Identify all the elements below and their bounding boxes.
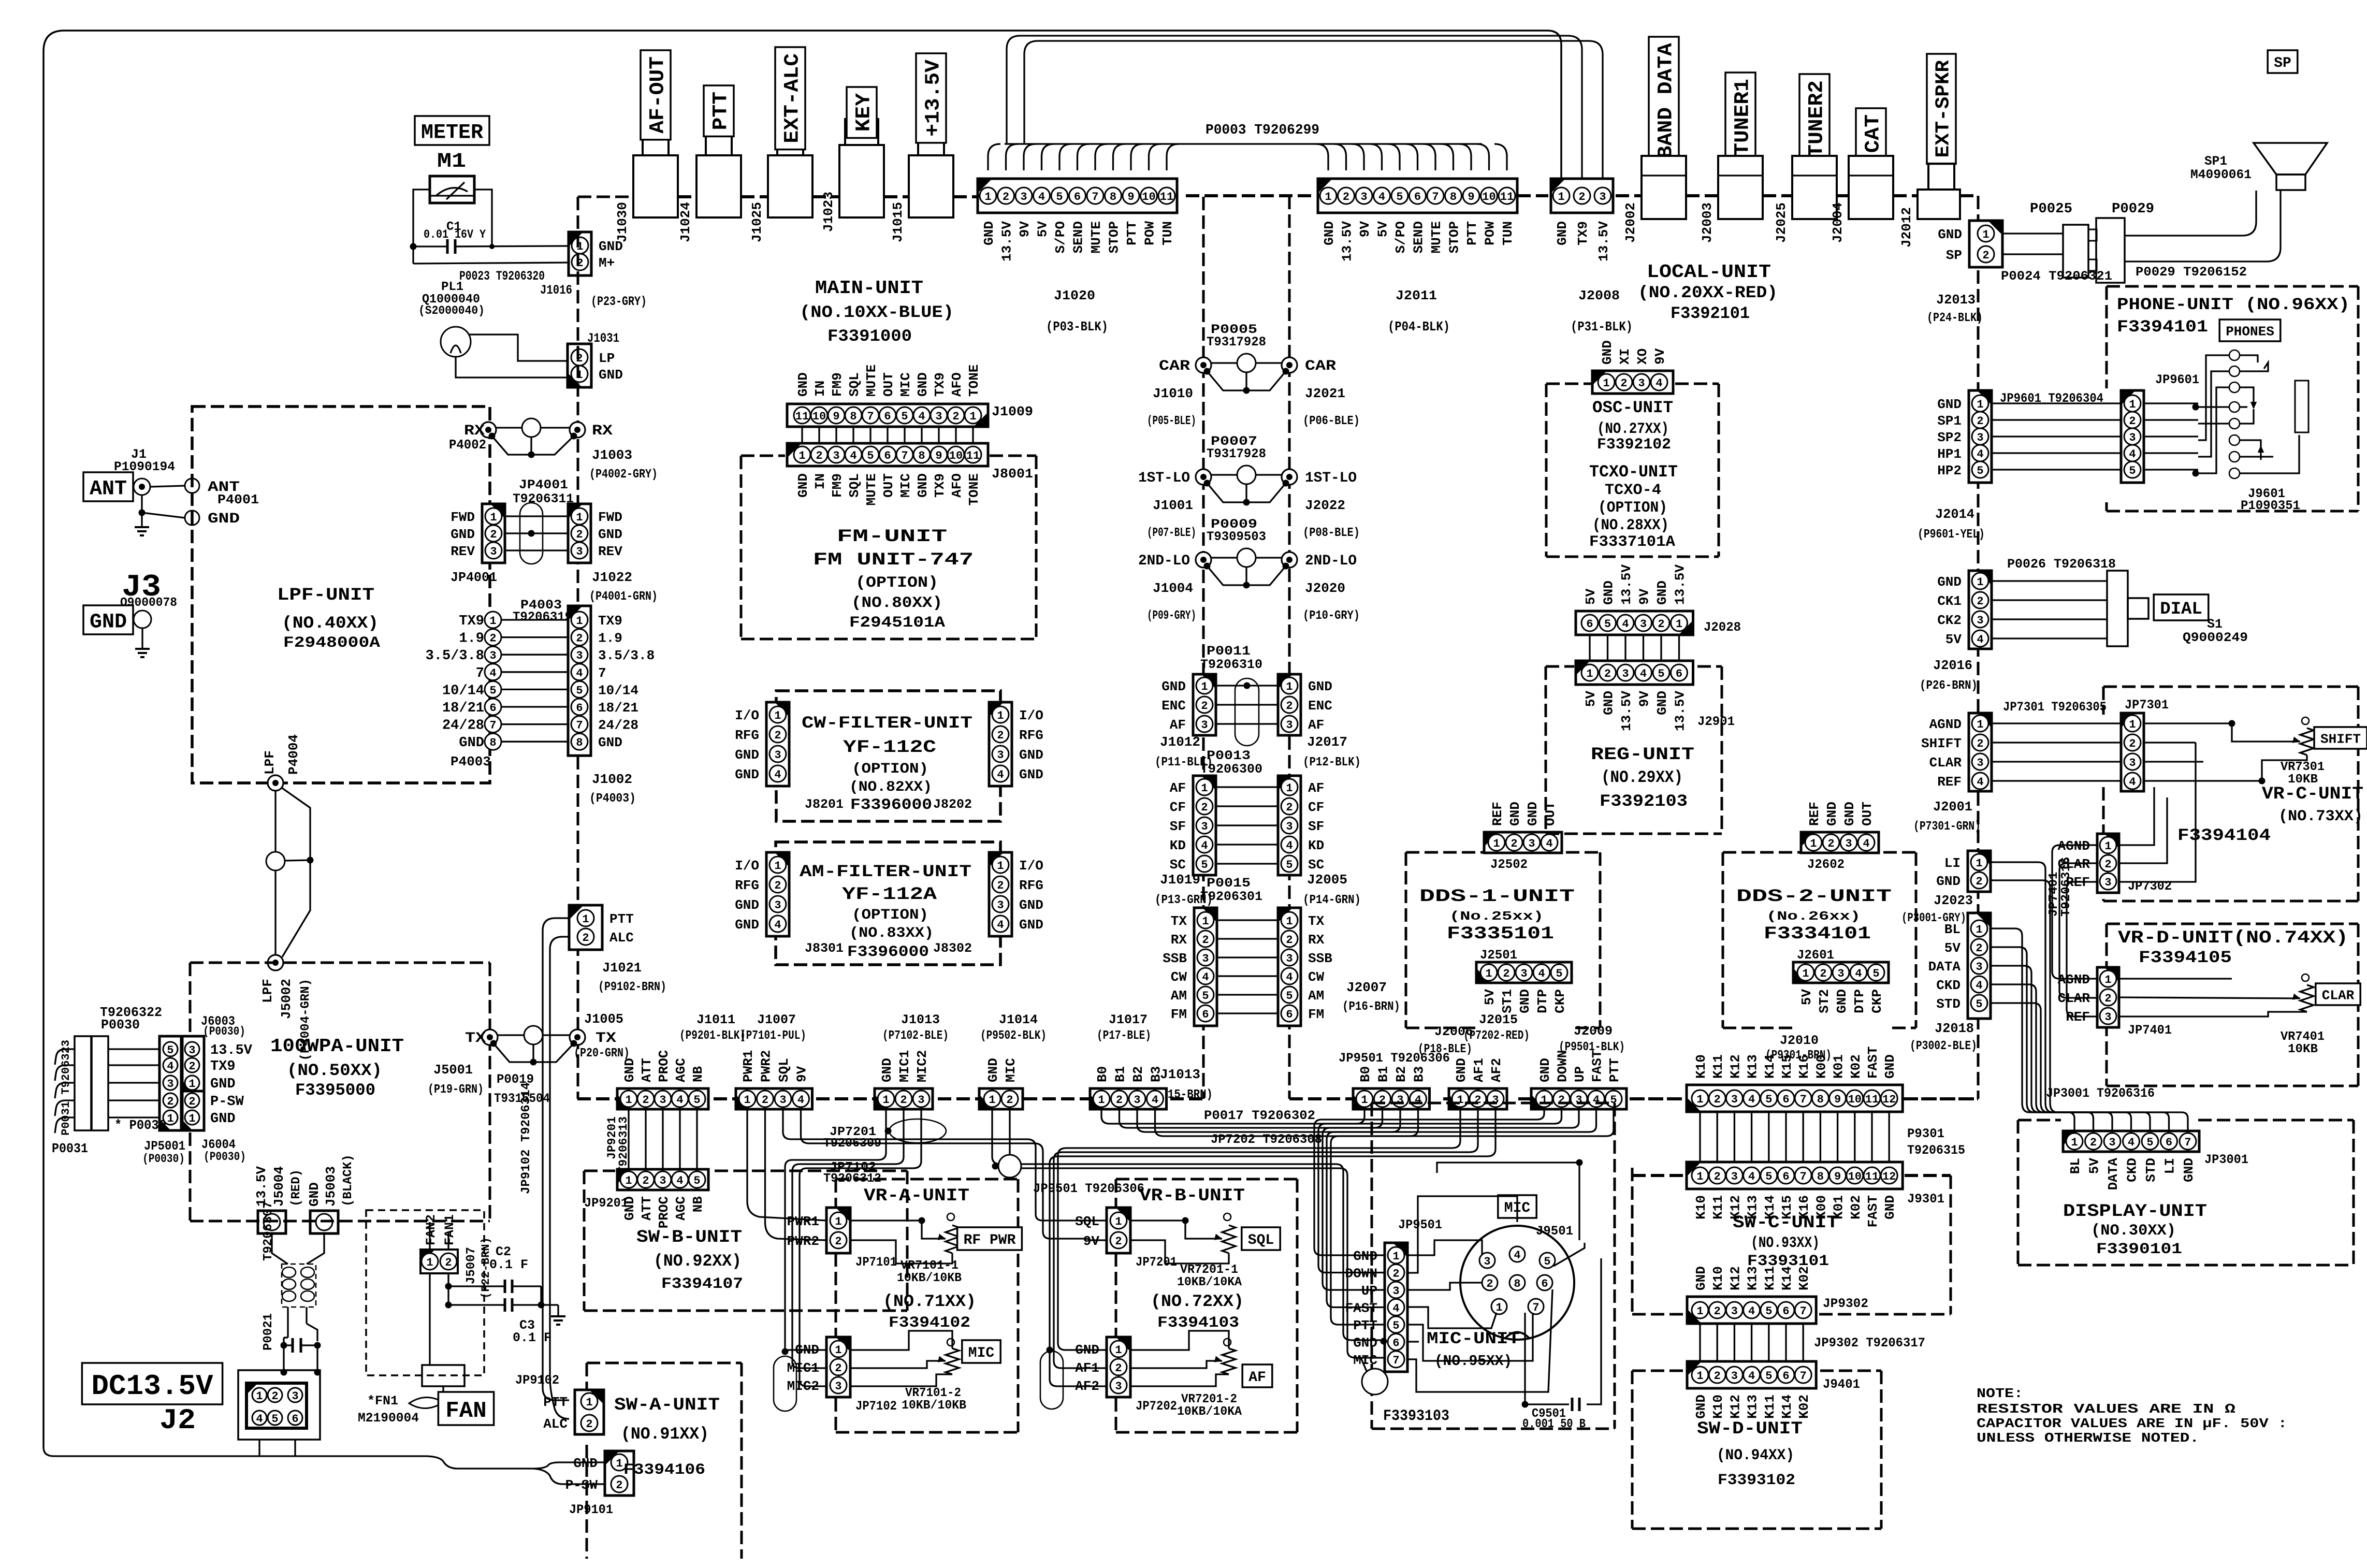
wire top line 3 (to J2008 pin3) — [1024, 41, 1603, 179]
svg-text:(P24-BLK): (P24-BLK) — [1927, 311, 1983, 325]
svg-text:GND: GND — [1601, 691, 1617, 715]
connector J2023 — [1968, 851, 1991, 892]
wire lamp to J1031 pin1 (GND) — [456, 357, 568, 378]
svg-text:J9401: J9401 — [1823, 1377, 1860, 1392]
svg-text:VR7201-2: VR7201-2 — [1181, 1392, 1237, 1406]
svg-text:5V: 5V — [1035, 221, 1051, 238]
svg-text:T9309503: T9309503 — [1207, 529, 1266, 544]
svg-text:F3394104: F3394104 — [2177, 826, 2271, 845]
connector JP9101 — [605, 1451, 634, 1496]
svg-text:100WPA-UNIT: 100WPA-UNIT — [270, 1036, 404, 1057]
svg-text:4: 4 — [676, 1174, 683, 1187]
jack J1024 body — [706, 135, 732, 155]
svg-text:P9301: P9301 — [1907, 1126, 1944, 1141]
svg-text:3: 3 — [576, 649, 583, 662]
pot VR7401 (CLAR) — [2302, 974, 2309, 981]
svg-text:CAPACITOR VALUES ARE IN µF. 50: CAPACITOR VALUES ARE IN µF. 50V : — [1977, 1416, 2287, 1431]
connector JP7401 — [2097, 967, 2119, 1027]
svg-text:S/PO: S/PO — [1393, 221, 1408, 253]
svg-text:DISPLAY-UNIT: DISPLAY-UNIT — [2063, 1202, 2207, 1222]
svg-text:FAST: FAST — [1345, 1301, 1377, 1316]
svg-text:AM: AM — [1308, 988, 1324, 1004]
svg-text:J2601: J2601 — [1797, 948, 1834, 963]
svg-text:TUN: TUN — [1500, 221, 1516, 245]
svg-text:ATT: ATT — [639, 1196, 655, 1221]
svg-text:TX9: TX9 — [932, 372, 948, 397]
wire top line 2 (to J2008 pin2) — [1007, 36, 1582, 179]
svg-text:7: 7 — [576, 719, 583, 732]
boxed label EXT-ALC — [775, 47, 805, 150]
svg-text:9V: 9V — [794, 1066, 810, 1082]
svg-text:5: 5 — [2129, 464, 2136, 477]
svg-text:DTP: DTP — [1535, 989, 1550, 1013]
wire J5003 down — [307, 1233, 324, 1264]
connector J1021 — [569, 905, 602, 950]
wire dashed J2008-right — [1616, 194, 1640, 197]
pot VR7301 (SHIFT) — [2302, 717, 2309, 724]
svg-text:11: 11 — [1500, 191, 1514, 204]
boxed label METER — [415, 116, 489, 145]
svg-text:LP: LP — [599, 351, 615, 366]
svg-text:3: 3 — [1286, 719, 1293, 732]
svg-text:GND: GND — [210, 1077, 236, 1092]
svg-text:GND: GND — [915, 473, 931, 498]
phone jack sleeve rect — [2295, 381, 2308, 432]
svg-text:2: 2 — [1714, 1305, 1721, 1318]
svg-text:POW: POW — [1483, 221, 1498, 245]
svg-text:3: 3 — [1977, 614, 1983, 627]
svg-text:4: 4 — [1863, 837, 1869, 850]
svg-text:(P12-BLK): (P12-BLK) — [1303, 756, 1361, 770]
svg-text:J8202: J8202 — [933, 797, 972, 812]
connector J8302 — [989, 852, 1012, 936]
wire bottom border to JP9101 — [43, 1447, 533, 1469]
svg-text:SP: SP — [2274, 55, 2291, 71]
svg-text:5: 5 — [1201, 859, 1208, 872]
svg-text:AF: AF — [1308, 780, 1324, 796]
svg-text:6: 6 — [1782, 1370, 1789, 1383]
svg-text:9: 9 — [1127, 191, 1134, 204]
wires J1012-J2017 — [1216, 685, 1278, 686]
wire coax link — [1211, 362, 1237, 364]
svg-text:BL: BL — [1944, 922, 1961, 937]
svg-text:K10: K10 — [1710, 1266, 1726, 1290]
svg-text:P4003: P4003 — [451, 754, 491, 770]
wire dashed local jacks row — [1686, 194, 1718, 197]
svg-text:J2: J2 — [159, 1404, 196, 1437]
svg-text:3: 3 — [1731, 1170, 1738, 1183]
bus JP7102 MIC1/MIC2 — [785, 1109, 886, 1350]
svg-text:2: 2 — [1116, 1094, 1123, 1107]
svg-text:STOP: STOP — [1107, 221, 1122, 253]
svg-text:6: 6 — [1782, 1305, 1789, 1318]
svg-text:6: 6 — [576, 702, 583, 715]
svg-text:10: 10 — [812, 410, 826, 423]
connector JP5001 (left col) — [159, 1036, 181, 1130]
svg-text:2: 2 — [1201, 700, 1208, 713]
svg-text:F3392102: F3392102 — [1597, 436, 1671, 454]
svg-text:F3392103: F3392103 — [1600, 792, 1688, 811]
connector JP9501 — [1385, 1243, 1407, 1372]
SW-B-UNIT box — [583, 1171, 586, 1311]
svg-text:(NO.50XX): (NO.50XX) — [287, 1061, 382, 1080]
svg-text:(P07-BLE): (P07-BLE) — [1147, 526, 1196, 540]
svg-text:2: 2 — [490, 528, 497, 541]
svg-text:P0026 T9206318: P0026 T9206318 — [2007, 557, 2116, 572]
label DC13.5V — [82, 1363, 222, 1404]
svg-text:2: 2 — [1604, 667, 1611, 680]
svg-text:3: 3 — [1392, 1285, 1399, 1298]
svg-text:RESISTOR VALUES ARE IN Ω: RESISTOR VALUES ARE IN Ω — [1977, 1401, 2235, 1417]
svg-text:FM9: FM9 — [830, 473, 845, 498]
svg-text:REV: REV — [451, 544, 475, 559]
svg-text:(NO.94XX): (NO.94XX) — [1717, 1447, 1794, 1464]
svg-text:5: 5 — [1872, 967, 1879, 980]
svg-text:1: 1 — [1558, 191, 1564, 204]
svg-text:(P16-BRN): (P16-BRN) — [1342, 1000, 1400, 1014]
svg-text:CK2: CK2 — [1937, 613, 1962, 628]
svg-text:(P0030): (P0030) — [203, 1025, 245, 1038]
svg-text:T9206309: T9206309 — [823, 1137, 881, 1151]
svg-text:F3337101A: F3337101A — [1589, 533, 1675, 551]
REG-UNIT box — [1545, 666, 1547, 834]
svg-text:RX: RX — [1308, 932, 1325, 948]
cable oval JP7102 — [774, 1356, 796, 1411]
cable oval JP7202 — [1040, 1351, 1063, 1409]
svg-text:5V: 5V — [1482, 989, 1498, 1006]
bus JP9501 (J2009 to MIC) — [1314, 1109, 1544, 1255]
svg-text:P0015: P0015 — [1207, 876, 1251, 891]
svg-text:2: 2 — [2129, 737, 2136, 750]
svg-text:J1022: J1022 — [592, 570, 632, 585]
svg-text:3: 3 — [833, 449, 839, 462]
svg-text:J8201: J8201 — [805, 797, 844, 812]
svg-text:6: 6 — [1586, 618, 1593, 631]
svg-text:(P3002-BLE): (P3002-BLE) — [1910, 1039, 1977, 1053]
svg-text:1ST-LO: 1ST-LO — [1138, 470, 1190, 486]
svg-text:2: 2 — [997, 879, 1004, 892]
svg-text:J2008: J2008 — [1578, 288, 1620, 303]
svg-text:5: 5 — [576, 684, 583, 697]
svg-text:RFG: RFG — [735, 878, 759, 893]
svg-text:AF2: AF2 — [1489, 1058, 1504, 1082]
svg-text:TONE: TONE — [966, 473, 982, 505]
svg-text:3: 3 — [1731, 1370, 1738, 1383]
svg-text:(NO.20XX-RED): (NO.20XX-RED) — [1638, 283, 1778, 302]
svg-text:1: 1 — [582, 913, 589, 926]
svg-text:5: 5 — [1396, 191, 1403, 204]
svg-text:GND: GND — [735, 897, 759, 913]
svg-text:3: 3 — [1286, 820, 1293, 833]
svg-text:2: 2 — [1820, 967, 1826, 980]
connector J2011 — [1318, 179, 1517, 213]
svg-text:J1005: J1005 — [584, 1011, 623, 1027]
svg-text:1: 1 — [835, 1344, 841, 1357]
wire J2011 pin riser — [1387, 144, 1400, 170]
svg-text:10: 10 — [1848, 1170, 1862, 1183]
svg-text:JP7202: JP7202 — [1136, 1399, 1177, 1414]
svg-text:1: 1 — [1115, 1215, 1122, 1228]
svg-text:B3: B3 — [1412, 1066, 1427, 1082]
svg-text:ATT: ATT — [639, 1058, 655, 1082]
svg-text:10: 10 — [1482, 191, 1495, 204]
svg-text:AGND: AGND — [2058, 972, 2090, 988]
wire LPF bow — [282, 788, 310, 957]
svg-text:GND: GND — [1019, 917, 1043, 933]
svg-text:6: 6 — [1286, 1008, 1293, 1021]
svg-text:ENC: ENC — [1161, 698, 1186, 714]
svg-text:(P9502-BLK): (P9502-BLK) — [980, 1029, 1047, 1043]
svg-text:JP9302: JP9302 — [1823, 1296, 1868, 1311]
svg-text:MUTE: MUTE — [1429, 221, 1444, 253]
wire coax link — [1211, 557, 1237, 558]
svg-text:DDS-2-UNIT: DDS-2-UNIT — [1736, 887, 1892, 907]
svg-text:(NO.27XX): (NO.27XX) — [1597, 420, 1669, 438]
svg-text:2: 2 — [1286, 700, 1293, 713]
svg-text:1: 1 — [1325, 191, 1331, 204]
svg-text:K10: K10 — [1693, 1195, 1709, 1219]
capacitor C1 — [446, 239, 449, 254]
cable oval J1013 bus — [889, 1119, 946, 1143]
svg-text:3: 3 — [1731, 1305, 1738, 1318]
svg-text:GND: GND — [451, 527, 475, 542]
svg-text:CAT: CAT — [1862, 114, 1885, 153]
svg-text:T9206312: T9206312 — [823, 1172, 881, 1186]
svg-text:GND: GND — [1654, 580, 1670, 605]
MAIN-UNIT boundary right — [1202, 197, 1205, 1099]
svg-text:FAN: FAN — [445, 1398, 486, 1424]
svg-text:5: 5 — [167, 1044, 173, 1057]
connector JP9302 — [1687, 1297, 1816, 1324]
svg-text:(OPTION): (OPTION) — [852, 761, 928, 777]
svg-text:1: 1 — [576, 615, 583, 628]
connector J2028 — [1576, 611, 1693, 635]
svg-text:11: 11 — [1865, 1093, 1879, 1106]
svg-text:MIC: MIC — [1353, 1353, 1377, 1368]
boxed label TUNER2 — [1799, 74, 1829, 164]
svg-text:1: 1 — [774, 709, 781, 722]
svg-text:1: 1 — [188, 1112, 195, 1125]
svg-text:(NO.80XX): (NO.80XX) — [851, 594, 942, 612]
ground J3 — [141, 628, 143, 649]
svg-text:6: 6 — [1074, 191, 1081, 204]
svg-text:J2025: J2025 — [1774, 202, 1789, 243]
svg-text:1: 1 — [1810, 837, 1817, 850]
svg-text:GND: GND — [1937, 574, 1962, 590]
svg-text:2: 2 — [835, 1235, 841, 1248]
svg-text:J2016: J2016 — [1933, 658, 1972, 673]
svg-text:(P23-GRY): (P23-GRY) — [591, 294, 647, 309]
svg-text:3: 3 — [1397, 1094, 1403, 1107]
svg-text:SHIFT: SHIFT — [1921, 736, 1962, 751]
svg-text:(NO.71XX): (NO.71XX) — [883, 1292, 976, 1311]
svg-text:J1011: J1011 — [696, 1012, 735, 1027]
svg-text:4: 4 — [1656, 377, 1662, 390]
svg-text:1: 1 — [997, 860, 1004, 873]
svg-text:B2: B2 — [1393, 1066, 1409, 1082]
svg-text:1ST-LO: 1ST-LO — [1305, 470, 1357, 486]
svg-text:2: 2 — [1620, 377, 1627, 390]
encoder S1 body — [2107, 571, 2128, 646]
svg-text:3: 3 — [2104, 876, 2111, 889]
svg-text:M2190004: M2190004 — [358, 1411, 419, 1426]
svg-text:GND: GND — [981, 221, 997, 245]
svg-text:4: 4 — [997, 919, 1004, 932]
wire J2011 pin riser — [1423, 144, 1435, 170]
boxed label PTT — [704, 85, 734, 136]
svg-text:2: 2 — [1658, 618, 1664, 631]
wires JP7202 to pot — [1130, 1331, 1229, 1350]
svg-text:7: 7 — [1392, 1354, 1399, 1367]
svg-text:4: 4 — [167, 1060, 173, 1073]
boxed label FAN — [438, 1392, 493, 1425]
svg-text:J1020: J1020 — [1054, 288, 1095, 303]
FM-UNIT box — [741, 455, 785, 457]
wire dashed J2009-J2010 — [1631, 1097, 1685, 1100]
connector J2901 — [1576, 661, 1693, 685]
svg-text:5: 5 — [901, 410, 908, 423]
svg-text:GND: GND — [1824, 802, 1840, 826]
svg-text:J1003: J1003 — [592, 447, 632, 463]
svg-text:T9206311: T9206311 — [513, 491, 574, 506]
svg-text:13.5V: 13.5V — [1619, 691, 1634, 731]
svg-text:GND: GND — [985, 1058, 1001, 1082]
svg-text:2: 2 — [445, 1256, 452, 1269]
svg-text:MIC: MIC — [898, 473, 913, 498]
wire RX vee — [492, 436, 574, 455]
svg-text:BAND DATA: BAND DATA — [1654, 43, 1678, 158]
svg-text:(NO.73XX): (NO.73XX) — [2278, 808, 2363, 825]
svg-text:P0031 T9206323: P0031 T9206323 — [60, 1040, 72, 1136]
connector J6004 (right col lower) — [182, 1091, 204, 1130]
svg-text:J2028: J2028 — [1704, 620, 1741, 635]
svg-text:DDS-1-UNIT: DDS-1-UNIT — [1419, 887, 1575, 907]
svg-text:3: 3 — [918, 1094, 924, 1107]
boxed label RF PWR — [957, 1227, 1022, 1250]
svg-text:5: 5 — [1286, 990, 1293, 1003]
svg-text:J1013: J1013 — [901, 1012, 940, 1027]
svg-text:GND: GND — [1834, 989, 1850, 1013]
svg-text:MIC: MIC — [898, 372, 913, 397]
connector J1002 — [568, 606, 591, 756]
connector J1007 — [736, 1088, 812, 1109]
svg-text:J2017: J2017 — [1307, 734, 1347, 750]
svg-text:1: 1 — [1541, 1094, 1547, 1107]
svg-text:VR-A-UNIT: VR-A-UNIT — [864, 1186, 969, 1206]
svg-text:TX9: TX9 — [210, 1059, 236, 1075]
svg-text:REF: REF — [1490, 802, 1505, 826]
svg-text:3: 3 — [1286, 952, 1293, 965]
svg-text:13.5V: 13.5V — [1596, 221, 1611, 262]
svg-text:8: 8 — [1817, 1170, 1824, 1183]
wires J1019-J2005 — [1216, 786, 1278, 788]
svg-text:PTT: PTT — [609, 911, 634, 927]
svg-text:(OPTION): (OPTION) — [855, 574, 938, 592]
svg-text:J2020: J2020 — [1305, 580, 1345, 596]
svg-text:3: 3 — [1520, 967, 1527, 980]
svg-text:J1015: J1015 — [890, 202, 906, 242]
svg-text:J1012: J1012 — [1160, 734, 1200, 750]
svg-text:5: 5 — [1658, 667, 1664, 680]
svg-text:1: 1 — [1696, 1370, 1703, 1383]
svg-text:RFG: RFG — [1019, 728, 1043, 743]
svg-text:DC13.5V: DC13.5V — [91, 1370, 213, 1403]
svg-text:J5002: J5002 — [279, 979, 294, 1019]
svg-text:1.9: 1.9 — [598, 631, 622, 646]
boxed label MIC(unit) — [1498, 1195, 1536, 1218]
svg-text:4: 4 — [256, 1413, 263, 1426]
svg-text:2: 2 — [816, 449, 822, 462]
svg-text:4: 4 — [1976, 979, 1982, 992]
svg-text:VR7101-1: VR7101-1 — [901, 1259, 959, 1273]
wire M+ to J1016 pin2 — [413, 263, 569, 264]
svg-text:3: 3 — [1599, 191, 1606, 204]
svg-text:4: 4 — [1977, 776, 1983, 789]
svg-text:(P7301-GRN): (P7301-GRN) — [1913, 820, 1981, 834]
ground FAN caps — [541, 1304, 558, 1305]
svg-text:F3391000: F3391000 — [827, 327, 912, 346]
jack J2025 — [1792, 156, 1837, 219]
connector JP7202 — [1107, 1337, 1130, 1397]
svg-text:(P9501-BLK): (P9501-BLK) — [1559, 1040, 1625, 1054]
svg-text:GND: GND — [1938, 227, 1962, 242]
svg-text:2: 2 — [1977, 595, 1983, 608]
svg-text:J2013: J2013 — [1936, 292, 1976, 308]
svg-text:6: 6 — [884, 410, 891, 423]
svg-text:4: 4 — [1640, 667, 1647, 680]
svg-text:2: 2 — [1982, 249, 1989, 262]
svg-text:1: 1 — [576, 511, 583, 524]
svg-text:SQL: SQL — [776, 1058, 792, 1082]
svg-text:2: 2 — [642, 1094, 649, 1107]
svg-text:3: 3 — [774, 749, 781, 762]
svg-text:JP7301 T9206305: JP7301 T9206305 — [2003, 700, 2107, 715]
svg-text:(NO.10XX-BLUE): (NO.10XX-BLUE) — [800, 303, 954, 322]
svg-text:(NO.95XX): (NO.95XX) — [1434, 1353, 1512, 1370]
svg-text:6: 6 — [1782, 1093, 1789, 1106]
svg-text:3: 3 — [1731, 1093, 1738, 1106]
svg-text:SHIFT: SHIFT — [2320, 731, 2361, 747]
svg-text:PTT: PTT — [1353, 1318, 1377, 1333]
connector J1013 (mode) — [1194, 908, 1217, 1026]
svg-text:T9206307: T9206307 — [262, 1201, 275, 1261]
wire lamp to J1031 pin2 (LP) — [469, 335, 568, 361]
svg-text:SQL: SQL — [847, 372, 862, 397]
svg-text:F2948000A: F2948000A — [283, 634, 380, 652]
svg-text:K11: K11 — [1762, 1395, 1778, 1419]
svg-text:M1: M1 — [437, 150, 466, 173]
svg-text:3: 3 — [659, 1094, 666, 1107]
svg-text:2: 2 — [1202, 934, 1209, 947]
svg-text:1: 1 — [989, 1094, 995, 1107]
svg-text:J1002: J1002 — [592, 772, 632, 787]
svg-text:F3394106: F3394106 — [623, 1461, 705, 1479]
svg-text:J1004: J1004 — [1153, 580, 1193, 596]
svg-text:B3: B3 — [1149, 1066, 1164, 1082]
svg-text:(NO.92XX): (NO.92XX) — [654, 1252, 742, 1271]
svg-text:5: 5 — [1202, 990, 1209, 1003]
boxed label SP — [2268, 50, 2298, 73]
svg-text:J5003: J5003 — [323, 1166, 339, 1207]
wire dashed J9301 left — [1632, 1174, 1685, 1177]
svg-text:REF: REF — [1807, 802, 1822, 826]
svg-text:P4004: P4004 — [286, 734, 301, 775]
SW-A-UNIT box — [586, 1363, 588, 1390]
svg-text:*FN1: *FN1 — [367, 1393, 398, 1409]
svg-text:DATA: DATA — [2105, 1158, 2121, 1190]
svg-text:4: 4 — [1748, 1170, 1755, 1183]
svg-text:3: 3 — [774, 899, 781, 912]
